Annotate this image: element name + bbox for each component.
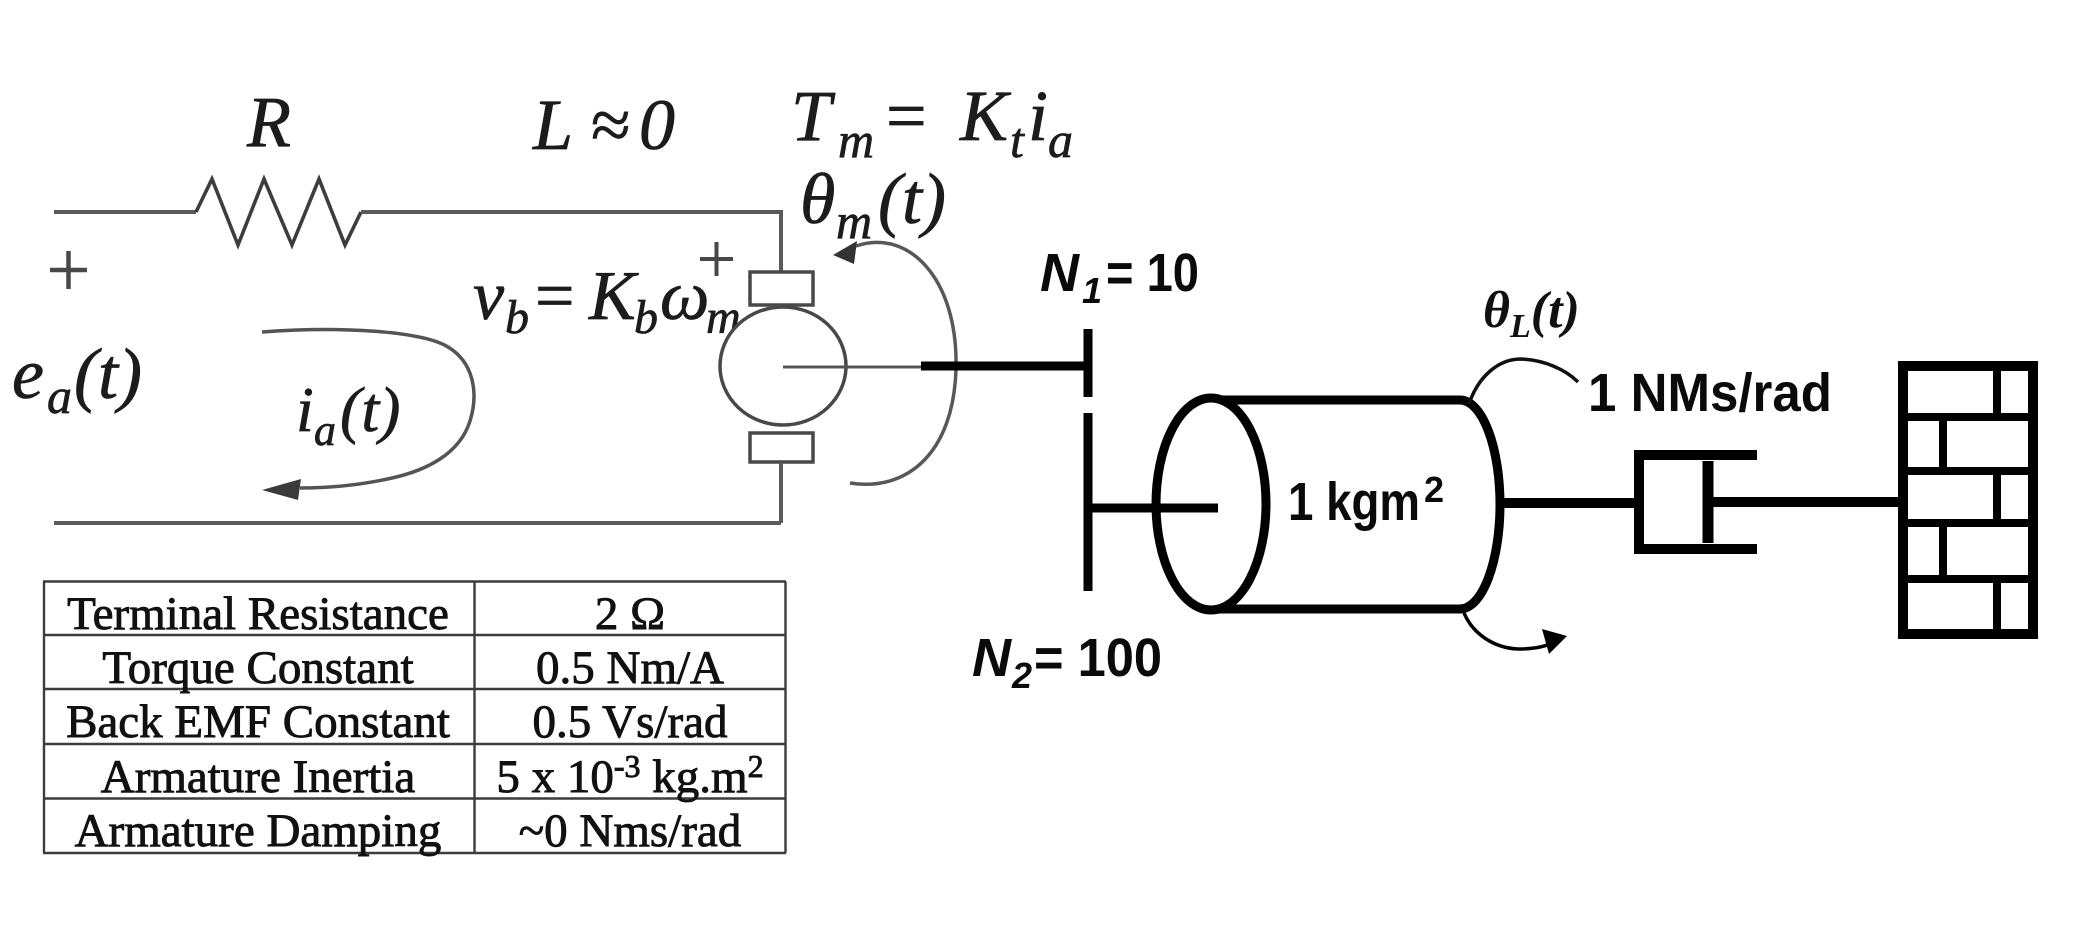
inertia cylinder left ellipse — [1156, 398, 1266, 610]
svg-text:≈: ≈ — [591, 85, 631, 165]
svg-text:= 10: = 10 — [1106, 243, 1199, 303]
load rotation arrow under cylinder — [1464, 613, 1567, 654]
inertia cylinder body bottom — [1213, 605, 1460, 614]
svg-text:Armature Inertia: Armature Inertia — [101, 751, 416, 803]
current loop ia arrow — [262, 330, 474, 500]
inertia cylinder body top — [1213, 396, 1460, 405]
svg-text:~0 Nms/rad: ~0 Nms/rad — [519, 805, 742, 857]
motor shaft thin line — [783, 366, 921, 369]
wire from bottom brush down — [779, 462, 783, 523]
svg-text:b: b — [505, 291, 529, 344]
rotation arc theta_m around motor — [833, 241, 956, 484]
motor armature circle — [720, 307, 846, 425]
svg-text:K: K — [588, 258, 639, 335]
svg-text:1 NMs/rad: 1 NMs/rad — [1588, 363, 1832, 423]
label R — [246, 82, 291, 162]
svg-text:i: i — [296, 374, 314, 445]
svg-text:0.5 Vs/rad: 0.5 Vs/rad — [533, 696, 728, 748]
svg-text:a: a — [314, 406, 336, 455]
plus sign at motor terminal — [700, 242, 733, 276]
svg-text:b: b — [634, 291, 658, 344]
svg-text:θ: θ — [800, 159, 835, 239]
gear N2 vertical line — [1084, 413, 1093, 591]
damper cup bottom rail — [1634, 544, 1757, 554]
wire top segment to motor — [361, 210, 781, 214]
svg-text:Terminal Resistance: Terminal Resistance — [67, 588, 449, 640]
shaft cylinder to damper — [1498, 498, 1639, 508]
label ia(t) — [296, 374, 400, 455]
wire bottom segment — [54, 521, 781, 525]
svg-text:Torque Constant: Torque Constant — [102, 642, 413, 694]
svg-text:T: T — [791, 76, 836, 156]
svg-text:a: a — [47, 368, 72, 424]
svg-text:2: 2 — [1424, 469, 1444, 510]
svg-text:i: i — [1028, 76, 1048, 156]
label 1 kgm2 — [1288, 469, 1444, 532]
damper piston rod to wall — [1708, 497, 1903, 507]
wall outer frame — [1903, 366, 2033, 634]
svg-text:1 kgm: 1 kgm — [1288, 472, 1420, 532]
motor shaft thick segment — [921, 362, 1092, 371]
damper cup top rail — [1634, 450, 1757, 460]
label N2 = 100 — [972, 628, 1162, 696]
svg-text:=: = — [535, 258, 574, 335]
label 1 NMs/rad — [1588, 363, 1832, 423]
parameter table grid — [43, 582, 786, 854]
svg-text:5 x 10-3 kg.m2: 5 x 10-3 kg.m2 — [496, 748, 763, 803]
load shaft into cylinder — [1160, 504, 1218, 513]
theta_L pointer arc — [1469, 359, 1578, 404]
wall brick joints — [1943, 366, 1997, 634]
label theta_L(t) — [1483, 282, 1580, 345]
damper piston — [1703, 461, 1714, 543]
label vb = Kb wm — [473, 258, 741, 344]
label ea(t) — [12, 334, 142, 424]
motor top brush — [750, 272, 813, 305]
svg-text:=: = — [886, 76, 927, 156]
label Tm = Kt ia — [791, 76, 1073, 168]
table row Back EMF Constant — [66, 696, 727, 748]
svg-text:K: K — [959, 76, 1012, 156]
label theta_m(t) — [800, 159, 946, 249]
svg-text:0: 0 — [639, 85, 675, 165]
table row Torque Constant — [102, 642, 724, 694]
svg-text:ω: ω — [660, 258, 709, 335]
inertia cylinder right cap — [1460, 400, 1500, 609]
wire right vertical down to top brush — [779, 210, 783, 272]
svg-text:2 Ω: 2 Ω — [595, 588, 665, 640]
svg-text:Armature Damping: Armature Damping — [75, 805, 442, 857]
table row Armature Damping — [75, 805, 742, 857]
svg-text:θL(t): θL(t) — [1483, 282, 1580, 345]
label N1 = 10 — [1040, 243, 1199, 311]
gear N1 vertical line — [1084, 329, 1093, 397]
wire top-left segment — [54, 210, 196, 214]
wall brick course lines — [1898, 417, 2033, 579]
svg-text:(t): (t) — [340, 374, 400, 445]
damper cup left wall — [1634, 450, 1644, 554]
resistor R — [196, 179, 361, 245]
svg-text:(t): (t) — [878, 159, 946, 239]
table row Armature Inertia — [101, 748, 764, 803]
load shaft from gear N2 — [1084, 504, 1218, 513]
svg-text:N: N — [1040, 243, 1080, 303]
label L approx 0 — [532, 85, 675, 165]
table row Terminal Resistance — [67, 588, 665, 640]
svg-text:e: e — [12, 334, 44, 414]
svg-text:Back EMF Constant: Back EMF Constant — [66, 696, 450, 748]
svg-text:a: a — [1048, 112, 1073, 168]
svg-text:v: v — [473, 258, 505, 335]
svg-text:(t): (t) — [74, 334, 142, 414]
svg-text:m: m — [838, 112, 874, 168]
svg-text:m: m — [836, 193, 872, 249]
svg-text:L: L — [532, 85, 573, 165]
plus sign at source top — [50, 251, 87, 289]
svg-text:1: 1 — [1082, 270, 1102, 311]
svg-text:0.5 Nm/A: 0.5 Nm/A — [536, 642, 724, 694]
svg-text:t: t — [1010, 112, 1025, 168]
svg-text:= 100: = 100 — [1034, 628, 1162, 688]
svg-text:N: N — [972, 628, 1012, 688]
svg-text:R: R — [246, 82, 291, 162]
svg-text:2: 2 — [1011, 655, 1032, 696]
motor bottom brush — [750, 433, 813, 462]
